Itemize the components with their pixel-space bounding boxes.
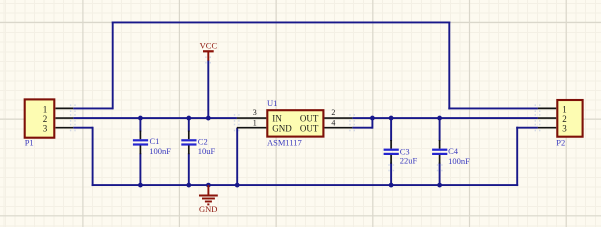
wire VCC drop	[207, 60, 209, 118]
U1 pin 4 OUT	[300, 118, 352, 133]
svg-text:10uF: 10uF	[198, 146, 216, 156]
svg-text:U1: U1	[267, 98, 277, 108]
designator label P1	[25, 138, 34, 148]
wire C3 bottom stem	[390, 163, 392, 186]
wire U1 OUT pin4 stub	[352, 127, 372, 129]
svg-text:C2: C2	[198, 136, 208, 146]
wire right rise to P2 pin3 row	[516, 127, 518, 186]
svg-text:2: 2	[43, 114, 48, 124]
wire P1 pin3 stub	[73, 127, 92, 129]
designator label P2	[556, 138, 565, 148]
value label 22uF	[400, 156, 418, 166]
designator label C2	[198, 136, 208, 146]
svg-text:4: 4	[331, 118, 335, 127]
designator label C1	[150, 136, 160, 146]
junction C1 top	[138, 116, 143, 121]
svg-text:C1: C1	[150, 136, 160, 146]
wire U1 GND drop to bottom bus	[236, 128, 238, 185]
svg-text:IN: IN	[272, 114, 282, 124]
svg-text:1: 1	[43, 104, 48, 114]
svg-text:2: 2	[331, 108, 335, 117]
value label ASM1117	[267, 138, 302, 148]
wire left drop to bottom bus	[92, 127, 94, 186]
svg-text:1: 1	[253, 118, 257, 127]
connector P2	[557, 100, 582, 137]
wire pin4 rise to OUT net	[371, 118, 373, 129]
designator label C4	[448, 146, 459, 156]
wire C1 bottom stem	[139, 153, 141, 185]
junction C3 top	[389, 116, 394, 121]
wire bottom bus	[92, 184, 519, 186]
svg-text:GND: GND	[199, 204, 217, 214]
svg-text:3: 3	[562, 124, 567, 134]
wire C4 top stem	[439, 118, 441, 141]
value label 100nF	[149, 146, 171, 156]
wire to P2 pin3	[516, 127, 538, 129]
svg-text:100nF: 100nF	[149, 146, 171, 156]
U1 pin 3 IN	[237, 108, 282, 123]
designator label U1	[267, 98, 277, 108]
svg-text:1: 1	[562, 104, 567, 114]
capacitor C2	[181, 131, 196, 155]
wire left riser up to top bus	[112, 21, 114, 109]
svg-text:OUT: OUT	[300, 124, 319, 134]
wire C4 bottom stem	[439, 163, 441, 186]
junction VCC	[206, 116, 211, 121]
capacitor C4	[432, 140, 447, 164]
svg-text:C4: C4	[448, 146, 459, 156]
junction C2 bottom	[186, 183, 191, 188]
ground GND	[199, 185, 218, 214]
junction C1 bottom	[138, 183, 143, 188]
U1 pin 1 GND	[237, 118, 292, 133]
value label 100nF (C4)	[448, 156, 470, 166]
wire C2 bottom stem	[188, 153, 190, 185]
wire right riser down to P2 pin1 row	[448, 21, 450, 109]
P1 pin 3	[43, 124, 73, 134]
capacitor C3	[384, 140, 399, 164]
svg-text:P2: P2	[556, 138, 565, 148]
P2 pin 2	[538, 114, 567, 124]
svg-text:100nF: 100nF	[448, 156, 470, 166]
junction C4 bottom	[437, 183, 442, 188]
wire C2 top stem	[188, 118, 190, 132]
off-grid connection markers	[70, 56, 541, 171]
svg-text:VCC: VCC	[200, 40, 218, 50]
wire C1 top stem	[139, 118, 141, 132]
regulator U1	[267, 110, 323, 136]
svg-text:GND: GND	[272, 124, 292, 134]
svg-text:P1: P1	[25, 138, 34, 148]
junction C2 top	[186, 116, 191, 121]
designator label C3	[400, 146, 410, 156]
U1 pin 2 OUT	[300, 108, 352, 123]
wire U1 OUT pin2 to P2 pin2	[352, 117, 538, 119]
svg-text:2: 2	[562, 114, 567, 124]
wire P1 pin2 to U1 IN	[73, 117, 237, 119]
junction GND symbol	[206, 183, 211, 188]
connector P1	[25, 99, 55, 137]
junction pin4 link	[370, 116, 375, 121]
svg-text:ASM1117: ASM1117	[267, 138, 302, 148]
P1 pin 2	[43, 114, 73, 124]
svg-text:3: 3	[253, 108, 257, 117]
svg-text:22uF: 22uF	[400, 156, 418, 166]
capacitor C1	[133, 131, 148, 155]
value label 10uF	[198, 146, 216, 156]
junction C4 top	[437, 116, 442, 121]
wire to P2 pin1	[448, 107, 538, 109]
wire top bus	[112, 21, 451, 23]
P2 pin 1	[538, 104, 567, 114]
wire P1 pin1 to riser	[73, 107, 113, 109]
svg-text:OUT: OUT	[300, 114, 319, 124]
junction C3 bottom	[389, 183, 394, 188]
P2 pin 3	[538, 124, 567, 134]
svg-text:3: 3	[43, 124, 48, 134]
wire C3 top stem	[390, 118, 392, 141]
P1 pin 1	[43, 104, 73, 114]
power port VCC	[200, 40, 218, 60]
junction U1 GND drop	[235, 183, 240, 188]
